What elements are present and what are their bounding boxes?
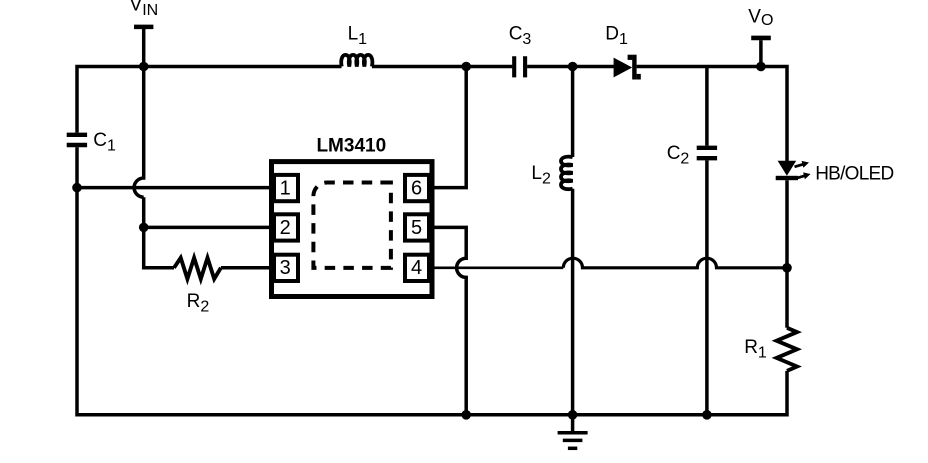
wire LED cathode down to R1 (785, 180, 789, 328)
diode D1 (Schottky) (614, 55, 641, 80)
wire L2 bottom (571, 189, 575, 415)
svg-text:HB/OLED: HB/OLED (815, 164, 894, 185)
node pin5 ground (461, 410, 471, 420)
node C2 ground (702, 410, 712, 420)
svg-text:6: 6 (411, 177, 422, 199)
wire pin 5 down with hop over pin4 wire (434, 227, 466, 414)
node FB at LED cathode (782, 263, 792, 273)
node VO on top rail (756, 62, 766, 72)
capacitor C1 (67, 135, 87, 145)
node VIN on top rail (139, 62, 149, 72)
node VIN/pin2 (139, 223, 149, 233)
svg-text:4: 4 (411, 257, 422, 279)
wire pin 6 to top rail (434, 67, 466, 188)
pin 1 box (274, 175, 298, 201)
wire pin 2 (144, 226, 273, 230)
resistor R1 (777, 328, 797, 371)
inductor L2 (561, 157, 573, 190)
resistor R2 (174, 258, 221, 279)
wire L2 top (571, 67, 575, 158)
terminal V_O (751, 36, 771, 41)
node C1/pin1 (72, 183, 82, 193)
wire VIN vertical with hop over pin1 wire (134, 67, 144, 198)
wire VIN vertical to R2 (144, 197, 174, 268)
wire C2 bottom (705, 160, 709, 414)
svg-text:LM3410: LM3410 (316, 135, 386, 156)
capacitor C3 (514, 56, 525, 77)
LED HB/OLED (776, 161, 798, 181)
pin 5 box (405, 214, 429, 240)
wire D1 to top-right corner, down to LED anode (637, 67, 787, 162)
wire pin 4 feedback with hops over L2 and C2 (434, 266, 563, 269)
svg-text:3: 3 (280, 257, 291, 279)
wire pin 1 (77, 186, 273, 190)
svg-text:2: 2 (280, 217, 291, 239)
dashed die outline (313, 183, 391, 268)
node SW on top rail (461, 62, 471, 72)
ground (571, 415, 575, 431)
svg-text:5: 5 (411, 217, 422, 239)
wire L1 to C3 (372, 65, 513, 69)
wire C3 to D1 (527, 65, 614, 69)
wire left rail lower + bottom rail + stub up to R1 (77, 147, 787, 415)
terminal V_IN (134, 25, 153, 30)
pin 2 box (274, 214, 298, 240)
pin 6 box (405, 175, 429, 201)
inductor L1 (341, 55, 372, 67)
wire C2 top (705, 67, 709, 146)
wire R2 to pin 3 (221, 266, 273, 270)
IC LM3410 (272, 162, 433, 297)
IC U1 LM3410 outer box (272, 162, 433, 297)
node L2 ground (568, 410, 578, 420)
pin 3 box (274, 255, 298, 281)
capacitor C2 (697, 148, 717, 158)
wire top-left corner + left rail upper segment (77, 67, 342, 133)
LED emission arrows (795, 161, 811, 179)
svg-text:1: 1 (280, 177, 291, 199)
node L2 on top rail (568, 62, 578, 72)
pin 4 box (405, 255, 429, 281)
